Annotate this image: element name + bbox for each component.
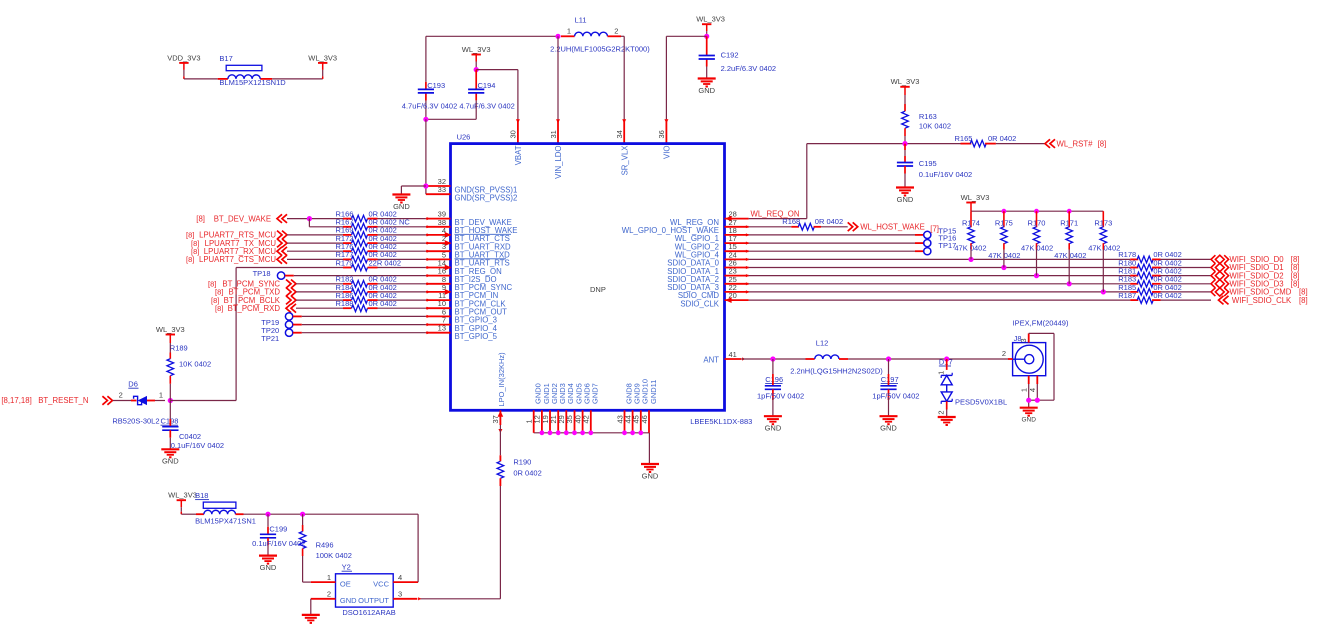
svg-text:B17: B17 bbox=[219, 54, 232, 63]
wire top rail bbox=[426, 35, 558, 37]
svg-text:47K 0402: 47K 0402 bbox=[1054, 251, 1086, 260]
svg-text:[8,17,18]: [8,17,18] bbox=[1, 396, 31, 405]
svg-text:2: 2 bbox=[327, 590, 331, 599]
pin GND10 stub bbox=[640, 410, 642, 433]
node D17 junction bbox=[944, 356, 949, 361]
pin 37 stub bbox=[499, 410, 501, 425]
svg-text:[8]: [8] bbox=[215, 304, 223, 313]
wire bbox=[749, 299, 1131, 301]
svg-text:VCC: VCC bbox=[373, 579, 389, 588]
wire bbox=[772, 398, 774, 416]
svg-text:LBEE5KL1DX-883: LBEE5KL1DX-883 bbox=[690, 417, 752, 426]
wire bbox=[1003, 250, 1005, 268]
net WIFI_SDIO_CLK bbox=[1219, 296, 1224, 305]
svg-text:TP18: TP18 bbox=[253, 269, 271, 278]
net WL_RST# bbox=[1045, 139, 1050, 148]
ferrite bead B17 bbox=[218, 78, 228, 80]
capacitor C194 bbox=[475, 70, 477, 90]
pin 4 bbox=[1036, 376, 1038, 384]
ground bus under chip bbox=[534, 432, 650, 434]
resistor R175 bbox=[1003, 211, 1005, 227]
svg-text:0R 0402: 0R 0402 bbox=[1153, 291, 1181, 300]
wire bbox=[741, 358, 805, 360]
node R496 junction bbox=[300, 512, 305, 517]
svg-text:C195: C195 bbox=[919, 159, 937, 168]
net WIFI_SDIO_CMD bbox=[1211, 288, 1215, 296]
wire branch to R167 bbox=[308, 219, 310, 227]
svg-text:42: 42 bbox=[582, 415, 591, 423]
svg-text:R188: R188 bbox=[336, 299, 354, 308]
testpoint TP16 bbox=[924, 240, 931, 247]
svg-text:RB520S-30L2: RB520S-30L2 bbox=[112, 417, 159, 426]
wire bbox=[848, 358, 1008, 360]
wire bbox=[184, 78, 218, 80]
svg-text:0R 0402: 0R 0402 bbox=[988, 134, 1016, 143]
resistor R181 bbox=[1130, 275, 1138, 277]
svg-text:BLM15PX471SN1: BLM15PX471SN1 bbox=[195, 517, 256, 526]
svg-text:WL_3V3: WL_3V3 bbox=[462, 45, 491, 54]
ground for SR_PVSS bbox=[392, 193, 410, 195]
wire L11 junction to pin31 bbox=[557, 36, 559, 119]
wire bbox=[749, 283, 1131, 285]
net WIFI_SDIO_D2 bbox=[1211, 271, 1215, 279]
svg-text:VDD_3V3: VDD_3V3 bbox=[167, 53, 200, 62]
node L11 pin1 junction bbox=[555, 34, 560, 39]
svg-text:WL_3V3: WL_3V3 bbox=[308, 53, 337, 62]
pin 1 bbox=[1028, 376, 1030, 384]
resistor R179 bbox=[343, 267, 352, 269]
svg-text:ANT: ANT bbox=[703, 355, 719, 364]
svg-text:R168: R168 bbox=[782, 217, 800, 226]
resistor R177 bbox=[343, 258, 352, 260]
resistor R180 bbox=[1130, 267, 1138, 269]
underline BT_UART_TXD bbox=[455, 258, 507, 260]
svg-text:D17: D17 bbox=[939, 357, 953, 366]
ground below C195 bbox=[896, 186, 914, 188]
svg-text:R165: R165 bbox=[955, 134, 973, 143]
node pullup junction bbox=[1101, 289, 1106, 294]
wire bbox=[287, 218, 343, 220]
svg-text:3: 3 bbox=[1019, 338, 1028, 342]
wire bbox=[749, 258, 1131, 260]
svg-text:GND: GND bbox=[340, 596, 357, 605]
svg-text:WL_HOST_WAKE: WL_HOST_WAKE bbox=[860, 223, 925, 232]
wire bbox=[296, 283, 343, 285]
svg-text:R173: R173 bbox=[1094, 218, 1112, 227]
wire WL_RST line bbox=[807, 143, 905, 145]
wire L11 to pin34 bbox=[621, 35, 624, 37]
resistor R169 bbox=[343, 234, 352, 236]
wire bbox=[296, 299, 343, 301]
svg-text:[8]: [8] bbox=[186, 255, 194, 264]
svg-text:WL_3V3: WL_3V3 bbox=[156, 325, 185, 334]
svg-text:R175: R175 bbox=[995, 218, 1013, 227]
svg-text:DNP: DNP bbox=[590, 285, 606, 294]
wire bbox=[970, 250, 972, 260]
svg-text:BT_GPIO_5: BT_GPIO_5 bbox=[455, 332, 498, 341]
wire bbox=[749, 234, 915, 236]
svg-text:2: 2 bbox=[614, 26, 618, 35]
node D6 junction bbox=[168, 398, 173, 403]
svg-text:SR_VLX: SR_VLX bbox=[620, 145, 629, 176]
svg-text:WL_3V3: WL_3V3 bbox=[891, 77, 920, 86]
capacitor C195 bbox=[904, 144, 906, 150]
svg-text:GND: GND bbox=[765, 424, 782, 433]
node C199 junction bbox=[265, 512, 270, 517]
wire to VIO pin36 bbox=[666, 35, 706, 37]
pin 30 stub bbox=[517, 119, 519, 143]
testpoint TP15 bbox=[924, 231, 931, 238]
svg-text:1: 1 bbox=[159, 391, 163, 400]
svg-text:36: 36 bbox=[657, 130, 666, 138]
svg-text:PESD5V0X1BL: PESD5V0X1BL bbox=[955, 398, 1007, 407]
pin 31 stub bbox=[557, 119, 559, 143]
wire bbox=[113, 400, 131, 402]
svg-text:2: 2 bbox=[119, 391, 123, 400]
wire bbox=[244, 513, 419, 515]
resistor R184 bbox=[343, 291, 352, 293]
svg-text:TP21: TP21 bbox=[261, 334, 279, 343]
node C196 junction bbox=[770, 356, 775, 361]
svg-text:GND: GND bbox=[897, 195, 914, 204]
resistor R176 bbox=[343, 250, 352, 252]
ground below C196 bbox=[764, 415, 782, 417]
svg-text:2.2uF/6.3V 0402: 2.2uF/6.3V 0402 bbox=[721, 64, 776, 73]
svg-text:GND: GND bbox=[642, 471, 659, 480]
svg-text:3: 3 bbox=[398, 590, 402, 599]
underline BT_HOST_WAKE bbox=[455, 233, 512, 235]
node junction bbox=[1026, 398, 1031, 403]
svg-text:10K 0402: 10K 0402 bbox=[919, 122, 951, 131]
wire bbox=[296, 307, 343, 309]
ground below C192 bbox=[698, 77, 716, 79]
pin GND2 stub bbox=[549, 410, 551, 433]
net WIFI_SDIO_D1 bbox=[1211, 263, 1215, 271]
pin GND4 stub bbox=[565, 410, 567, 433]
svg-text:34: 34 bbox=[615, 130, 624, 138]
wire bbox=[267, 545, 269, 555]
svg-text:R179: R179 bbox=[336, 258, 354, 267]
svg-text:C192: C192 bbox=[721, 51, 739, 60]
pin 3 bbox=[1028, 333, 1030, 342]
svg-text:D6: D6 bbox=[128, 379, 138, 388]
pin 36 stub bbox=[665, 119, 667, 143]
svg-text:GND: GND bbox=[698, 86, 715, 95]
svg-text:0.1uF/16V 0402: 0.1uF/16V 0402 bbox=[919, 170, 972, 179]
wire C192 to gnd bbox=[706, 67, 708, 79]
svg-text:C197: C197 bbox=[881, 375, 899, 384]
svg-text:WL_3V3: WL_3V3 bbox=[696, 15, 725, 24]
wire to ground bbox=[401, 185, 426, 187]
svg-text:BT_RESET_N: BT_RESET_N bbox=[38, 396, 88, 405]
svg-text:L12: L12 bbox=[816, 339, 829, 348]
resistor R188 bbox=[343, 307, 352, 309]
wire pullup rail bbox=[971, 210, 1103, 212]
svg-text:1pF/50V 0402: 1pF/50V 0402 bbox=[757, 391, 804, 400]
svg-text:WL_RST#: WL_RST# bbox=[1057, 139, 1094, 148]
svg-text:IPEX,FM(20449): IPEX,FM(20449) bbox=[1013, 318, 1069, 327]
svg-text:SDIO_CLK: SDIO_CLK bbox=[680, 299, 719, 308]
svg-text:2: 2 bbox=[937, 411, 946, 415]
svg-text:C199: C199 bbox=[269, 525, 287, 534]
svg-text:4.7uF/6.3V 0402: 4.7uF/6.3V 0402 bbox=[402, 101, 457, 110]
capacitor C192 bbox=[706, 36, 708, 55]
wire C194 bottom to C193 node bbox=[475, 100, 477, 119]
wire bbox=[293, 332, 302, 334]
wire bbox=[946, 410, 948, 418]
svg-text:WIFI_SDIO_CLK: WIFI_SDIO_CLK bbox=[1232, 296, 1292, 305]
resistor R185 bbox=[1130, 291, 1138, 293]
svg-text:GND11: GND11 bbox=[649, 380, 658, 404]
svg-text:WL_3V3: WL_3V3 bbox=[168, 491, 197, 500]
wire bbox=[296, 291, 343, 293]
svg-text:C196: C196 bbox=[765, 375, 783, 384]
wire bbox=[1161, 258, 1212, 260]
wire bbox=[169, 384, 171, 401]
node pullup junction bbox=[1067, 281, 1072, 286]
svg-text:46: 46 bbox=[640, 415, 649, 423]
resistor R167 bbox=[343, 226, 352, 228]
svg-text:LPO_IN(32KHz): LPO_IN(32KHz) bbox=[497, 352, 506, 407]
svg-text:33: 33 bbox=[438, 185, 446, 194]
wire bbox=[293, 324, 302, 326]
pin GND5 stub bbox=[574, 410, 576, 433]
svg-text:VIO: VIO bbox=[663, 146, 672, 159]
svg-text:0R 0402: 0R 0402 bbox=[369, 299, 397, 308]
svg-text:OE: OE bbox=[340, 579, 351, 588]
wire bbox=[1068, 250, 1070, 284]
svg-text:B18: B18 bbox=[195, 491, 208, 500]
resistor R186 bbox=[343, 299, 352, 301]
resistor R174 bbox=[970, 211, 972, 227]
svg-text:R170: R170 bbox=[1028, 218, 1046, 227]
svg-text:37: 37 bbox=[491, 415, 500, 423]
resistor R168 bbox=[791, 226, 799, 228]
resistor R171 bbox=[1068, 211, 1070, 227]
wire riser to WL_RST line bbox=[749, 218, 807, 220]
wire bbox=[749, 267, 1131, 269]
wire R190 to Y2 output bbox=[499, 486, 501, 599]
resistor R170 bbox=[1036, 211, 1038, 227]
svg-text:C194: C194 bbox=[478, 81, 496, 90]
svg-text:1: 1 bbox=[937, 371, 946, 375]
svg-text:GND7: GND7 bbox=[591, 383, 600, 404]
resistor R173 bbox=[1102, 211, 1104, 227]
svg-text:0R 0402: 0R 0402 bbox=[513, 469, 541, 478]
net WL_HOST_WAKE bbox=[848, 222, 853, 231]
wire pin3 loop bbox=[1029, 332, 1054, 334]
svg-text:GND(SR_PVSS)2: GND(SR_PVSS)2 bbox=[455, 194, 518, 203]
node rail junction bbox=[1034, 209, 1039, 214]
ground below D17 bbox=[938, 416, 956, 418]
svg-text:BT_DEV_WAKE: BT_DEV_WAKE bbox=[214, 214, 271, 223]
wire bbox=[1161, 275, 1212, 277]
node junction bbox=[307, 216, 312, 221]
ground below C199 bbox=[259, 554, 277, 556]
node C192 junction bbox=[704, 34, 709, 39]
svg-text:4: 4 bbox=[398, 573, 402, 582]
wire bbox=[749, 226, 792, 228]
svg-text:0R 0402: 0R 0402 bbox=[815, 217, 843, 226]
svg-text:C193: C193 bbox=[427, 81, 445, 90]
chip U26 body bbox=[451, 144, 725, 411]
svg-text:GND: GND bbox=[260, 563, 277, 572]
wire bbox=[1161, 283, 1212, 285]
node pullup junction bbox=[1034, 273, 1039, 278]
wire bbox=[287, 242, 343, 244]
wire bbox=[1161, 291, 1212, 293]
svg-text:13: 13 bbox=[438, 324, 446, 333]
wire pins to ground bbox=[1028, 384, 1030, 408]
svg-text:LPUART7_CTS_MCU: LPUART7_CTS_MCU bbox=[199, 255, 276, 264]
ground below chip bbox=[641, 463, 659, 465]
node rail junction bbox=[1002, 209, 1007, 214]
net WIFI_SDIO_D0 bbox=[1211, 255, 1215, 263]
pin 34 stub bbox=[623, 119, 625, 143]
node pullup junction bbox=[1001, 265, 1006, 270]
wire bbox=[285, 275, 294, 277]
resistor R163 bbox=[904, 104, 906, 111]
pin GND9 stub bbox=[632, 410, 634, 433]
svg-text:VIN_LDO: VIN_LDO bbox=[554, 146, 563, 179]
svg-text:R174: R174 bbox=[962, 218, 980, 227]
svg-text:BT_PCM_RXD: BT_PCM_RXD bbox=[228, 304, 281, 313]
resistor R496 bbox=[302, 514, 304, 531]
resistor R190 bbox=[499, 455, 501, 461]
wire VCC riser bbox=[417, 514, 419, 582]
resistor R166 bbox=[343, 218, 352, 220]
wire bbox=[749, 250, 915, 252]
node C197 junction bbox=[886, 356, 891, 361]
wire pin2 to gnd bbox=[310, 599, 312, 615]
svg-text:[8]: [8] bbox=[196, 214, 205, 223]
wire junction to riser bbox=[170, 400, 236, 402]
wire bbox=[1036, 250, 1038, 276]
wire to VBAT pin30 bbox=[476, 69, 518, 71]
ground below Y2 bbox=[302, 614, 320, 616]
pin GND6 stub bbox=[582, 410, 584, 433]
wire bbox=[287, 258, 343, 260]
pin GND0 stub bbox=[533, 410, 535, 433]
svg-text:R187: R187 bbox=[1118, 291, 1136, 300]
svg-text:BLM15PX121SN1D: BLM15PX121SN1D bbox=[219, 78, 286, 87]
wire bbox=[749, 291, 1131, 293]
svg-text:[8]: [8] bbox=[1299, 296, 1308, 305]
net WIFI_SDIO_D3 bbox=[1211, 280, 1215, 288]
svg-text:GND: GND bbox=[880, 424, 897, 433]
svg-text:4: 4 bbox=[1028, 388, 1037, 392]
node rail junction bbox=[1067, 209, 1072, 214]
wire R496 to OE bbox=[302, 556, 304, 582]
wire down to GND(SR_PVSS) pins bbox=[425, 119, 427, 194]
svg-text:R163: R163 bbox=[919, 112, 937, 121]
svg-text:0.1uF/16V 0402: 0.1uF/16V 0402 bbox=[252, 539, 305, 548]
svg-text:1pF/50V 0402: 1pF/50V 0402 bbox=[872, 391, 919, 400]
ground below J8 bbox=[1020, 408, 1038, 424]
svg-text:VBAT: VBAT bbox=[514, 145, 523, 165]
wire bbox=[904, 174, 906, 188]
svg-text:C0402: C0402 bbox=[179, 432, 201, 441]
wire bbox=[293, 315, 302, 317]
pin GND11 stub bbox=[648, 410, 650, 433]
pin GND1 stub bbox=[541, 410, 543, 433]
node C194 top junction bbox=[474, 67, 479, 72]
wire bbox=[287, 250, 343, 252]
wire bbox=[888, 398, 890, 416]
wire bbox=[904, 136, 906, 144]
svg-text:R189: R189 bbox=[170, 344, 188, 353]
svg-text:DSO1612ARAB: DSO1612ARAB bbox=[342, 608, 395, 617]
svg-text:2: 2 bbox=[1002, 349, 1006, 358]
wire from BT_RESET_N node bbox=[236, 267, 343, 269]
ground below C197 bbox=[880, 415, 898, 417]
wire bbox=[749, 242, 915, 244]
wire C193 column bbox=[425, 36, 427, 82]
node pin32 junction bbox=[423, 183, 428, 188]
svg-text:R171: R171 bbox=[1060, 218, 1078, 227]
svg-text:41: 41 bbox=[729, 350, 737, 359]
svg-text:10K 0402: 10K 0402 bbox=[179, 360, 211, 369]
svg-text:1: 1 bbox=[327, 573, 331, 582]
resistor R178 bbox=[1130, 258, 1138, 260]
node pullup junction bbox=[968, 257, 973, 262]
svg-text:100K 0402: 100K 0402 bbox=[316, 551, 352, 560]
svg-text:2.2UH(MLF1005G2R2KT000): 2.2UH(MLF1005G2R2KT000) bbox=[550, 45, 650, 54]
wire bbox=[749, 275, 1131, 277]
pin GND7 stub bbox=[590, 410, 592, 433]
wire bbox=[287, 234, 343, 236]
svg-text:22R 0402: 22R 0402 bbox=[369, 258, 402, 267]
resistor R183 bbox=[1130, 283, 1138, 285]
svg-text:WL_3V3: WL_3V3 bbox=[961, 193, 990, 202]
svg-text:[8]: [8] bbox=[1098, 139, 1107, 148]
wire bbox=[996, 143, 1045, 145]
svg-text:4.7uF/6.3V 0402: 4.7uF/6.3V 0402 bbox=[459, 101, 514, 110]
capacitor C193 bbox=[425, 82, 427, 90]
resistor R182 bbox=[343, 283, 352, 285]
wire bus to gnd bbox=[648, 433, 650, 464]
node R163/C195 junction bbox=[902, 141, 907, 146]
svg-text:30: 30 bbox=[509, 130, 518, 138]
svg-text:47K 0402: 47K 0402 bbox=[1088, 243, 1120, 252]
svg-text:Y2: Y2 bbox=[342, 563, 351, 572]
svg-text:GND: GND bbox=[1021, 417, 1036, 424]
svg-text:OUTPUT: OUTPUT bbox=[358, 596, 389, 605]
resistor R172 bbox=[343, 242, 352, 244]
wire bbox=[1161, 267, 1212, 269]
svg-text:R496: R496 bbox=[316, 541, 334, 550]
svg-text:1: 1 bbox=[567, 26, 571, 35]
node C193/C194 junction bbox=[423, 117, 428, 122]
svg-text:31: 31 bbox=[549, 130, 558, 138]
wire pin37 to R190 bbox=[499, 425, 501, 455]
resistor R187 bbox=[1130, 299, 1138, 301]
wire bbox=[821, 226, 848, 228]
pin GND3 stub bbox=[557, 410, 559, 433]
wire bbox=[904, 95, 906, 111]
testpoint TP17 bbox=[924, 248, 931, 255]
svg-text:2.2nH(LQG15HH2N2S02D): 2.2nH(LQG15HH2N2S02D) bbox=[790, 366, 883, 375]
svg-text:R190: R190 bbox=[513, 458, 531, 467]
svg-text:GND: GND bbox=[162, 457, 179, 466]
svg-text:U26: U26 bbox=[457, 133, 471, 142]
wire bbox=[1102, 250, 1104, 292]
pin GND8 stub bbox=[624, 410, 626, 433]
ground below C198 bbox=[161, 448, 179, 450]
wire bbox=[1161, 299, 1212, 301]
svg-text:L11: L11 bbox=[575, 15, 587, 24]
wire bbox=[169, 438, 171, 450]
